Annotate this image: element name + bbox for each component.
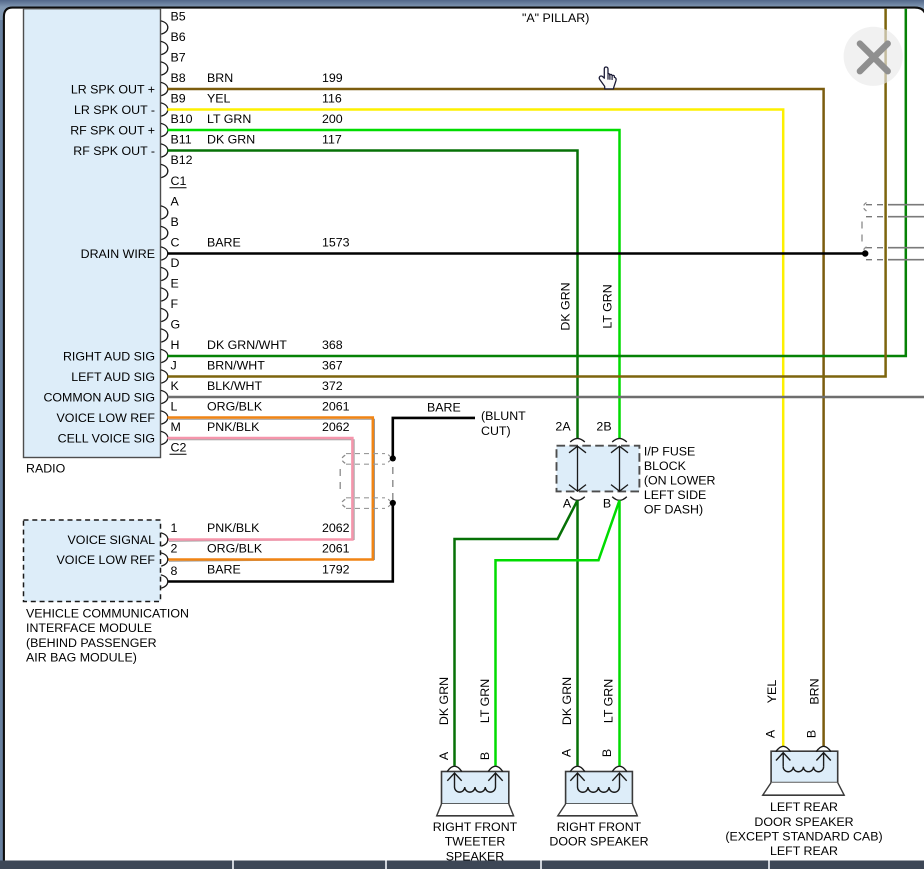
svg-text:B9: B9 [171,91,186,105]
radio pin B6 [161,30,186,55]
fuse block bottom cap pin B [612,497,627,501]
wire YEL 116 (radio B9 to left rear speaker A) [167,110,783,748]
wire DK GRN 117 (radio B11 to fuse block 2A) [167,151,577,439]
fuse block bottom cap pin A [570,497,585,501]
svg-text:DRAIN WIRE: DRAIN WIRE [81,247,155,261]
svg-text:BARE: BARE [207,235,241,249]
svg-text:116: 116 [322,91,342,105]
fuse element arrow 2B-B [611,446,628,491]
radio connector box [24,9,161,458]
svg-text:DK GRN: DK GRN [207,132,255,146]
radio pin C1 [170,174,187,188]
left rear door speaker [763,746,845,795]
svg-text:B: B [804,730,818,738]
svg-text:B: B [478,752,492,760]
svg-text:RF SPK OUT -: RF SPK OUT - [73,144,155,158]
svg-text:A: A [560,748,574,757]
svg-text:(BEHIND PASSENGER: (BEHIND PASSENGER [26,636,157,650]
svg-text:368: 368 [322,338,343,352]
mouse hand cursor [599,67,616,89]
svg-text:B: B [603,496,611,510]
wire ORG/BLK 2061 (radio L to VCIM pin 2) black stripe [169,419,375,561]
fuse block description text [644,445,716,517]
svg-text:DOOR SPEAKER: DOOR SPEAKER [754,815,853,829]
splice node on bare wire (top) [390,455,396,461]
bottom bar [0,861,924,869]
svg-text:2: 2 [171,541,178,555]
svg-text:A: A [763,729,777,738]
VCIM pin 2 [161,541,178,566]
svg-text:117: 117 [322,132,342,146]
wire label BRN/WHT 367 [207,358,343,372]
wire LT GRN 200 (radio B10 to fuse block 2B) [167,130,619,439]
svg-text:PNK/BLK: PNK/BLK [207,420,260,434]
svg-text:VOICE LOW REF: VOICE LOW REF [57,411,156,425]
svg-text:D: D [171,256,180,270]
svg-text:2061: 2061 [322,541,350,555]
svg-text:I/P FUSE: I/P FUSE [644,445,695,459]
wire label BARE 1573 [207,235,350,249]
svg-text:B10: B10 [171,112,193,126]
svg-text:A: A [171,194,180,208]
svg-text:CUT): CUT) [481,424,511,438]
radio pin B12 [161,153,193,178]
VCIM wire label BARE 1792 [207,562,350,576]
radio pin C [161,235,180,260]
radio pin B10 [161,112,193,137]
wire label BLK/WHT 372 [207,379,343,393]
svg-text:B: B [171,215,179,229]
fuse element arrow 2A-A [569,446,586,491]
A-pillar connector dashed terminal bottom [863,247,866,256]
radio pin B9 [161,91,186,116]
svg-text:372: 372 [322,379,343,393]
svg-text:ORG/BLK: ORG/BLK [207,399,263,413]
svg-text:B6: B6 [171,30,186,44]
VCIM wire label PNK/BLK 2062 [207,521,350,535]
svg-text:LEFT SIDE: LEFT SIDE [644,488,706,502]
A-pillar connector gray wire 2a [866,247,888,249]
svg-text:1792: 1792 [322,562,350,576]
svg-text:BARE: BARE [427,400,461,414]
VCIM pin 8 [161,564,178,588]
svg-text:BRN: BRN [207,71,233,85]
svg-text:BRN/WHT: BRN/WHT [207,358,265,372]
wire PNK/BLK 2062 (radio M to VCIM pin 1) black stripe [169,440,354,542]
radio pin B5 [161,9,186,34]
svg-text:199: 199 [322,71,343,85]
right front door speaker [558,766,638,816]
svg-text:DK GRN: DK GRN [437,677,451,725]
svg-text:RADIO: RADIO [26,461,66,475]
splice node drain wire to A-pillar [862,250,868,256]
radio pin H [161,338,180,363]
svg-text:A: A [437,751,451,760]
radio pin L [161,399,178,424]
wire label DK GRN/WHT 368 [207,338,343,352]
VCIM wire label ORG/BLK 2061 [207,541,350,555]
label (BLUNT CUT) [481,409,526,438]
wire BRN/WHT 367 (radio J, exits top right) [167,9,885,377]
svg-text:INTERFACE MODULE: INTERFACE MODULE [26,621,152,635]
radio pin C2 [170,440,187,454]
VCIM caption [26,606,189,664]
wire label DK GRN 117 [207,132,342,146]
radio pin B8 [161,71,186,96]
svg-text:L: L [171,399,178,413]
wire ORG/BLK 2061 (radio L to VCIM pin 2) [167,418,372,560]
svg-text:TWEETER: TWEETER [445,835,506,849]
svg-text:RIGHT AUD SIG: RIGHT AUD SIG [63,349,155,363]
svg-text:2062: 2062 [322,521,350,535]
svg-text:(EXCEPT STANDARD CAB): (EXCEPT STANDARD CAB) [725,829,882,843]
svg-text:LT GRN: LT GRN [207,112,251,126]
svg-text:COMMON AUD SIG: COMMON AUD SIG [43,390,155,404]
svg-text:B7: B7 [171,50,186,64]
svg-text:A: A [563,496,572,510]
svg-text:2B: 2B [596,419,611,433]
svg-text:(BLUNT: (BLUNT [481,409,526,423]
radio pin D [161,256,180,281]
VCIM pin 1 [161,521,178,546]
svg-text:LEFT AUD SIG: LEFT AUD SIG [71,370,155,384]
wire label ORG/BLK 2061 [207,399,350,413]
svg-text:2A: 2A [555,419,571,433]
wire BARE 1573 drain wire (radio C to A-pillar splice) [167,252,863,255]
svg-text:"A" PILLAR): "A" PILLAR) [522,11,589,25]
svg-text:B: B [600,749,614,757]
fuse block top cap pin 2A [570,438,585,442]
radio pin K [161,379,180,404]
wire label LT GRN 200 [207,112,343,126]
svg-text:BRN: BRN [807,678,821,704]
splice node on bare wire (bottom) [390,500,396,506]
svg-text:8: 8 [171,564,178,578]
I/P fuse block box (dashed) [557,446,640,492]
wire DK GRN/WHT 368 (radio H, exits top right) [167,9,906,356]
svg-text:(ON LOWER: (ON LOWER [644,474,716,488]
wire LT GRN branch fuse B to RF tweeter B [496,500,620,766]
svg-text:K: K [171,379,180,393]
radio pin B7 [161,50,186,75]
svg-text:YEL: YEL [765,680,779,704]
svg-text:BLK/WHT: BLK/WHT [207,379,263,393]
wire BRN 199 (radio B8 to left rear speaker B) [167,89,823,747]
svg-text:DK GRN: DK GRN [560,677,574,725]
svg-text:C2: C2 [171,440,187,454]
svg-text:B12: B12 [171,153,193,167]
radio pin J [161,358,177,383]
A-pillar connector gray wire 1a [866,204,888,206]
svg-text:2062: 2062 [322,420,350,434]
wire DK GRN fuse A to RF door speaker A [576,500,579,766]
svg-text:H: H [171,338,180,352]
svg-text:RF SPK OUT +: RF SPK OUT + [70,123,155,137]
radio pin B11 [161,132,192,157]
wire BLK/WHT 372 (radio K, exits right) [167,396,924,399]
svg-text:367: 367 [322,358,343,372]
svg-text:B11: B11 [171,132,192,146]
wire label BRN 199 [207,71,343,85]
radio pin E [161,276,179,301]
svg-text:LT GRN: LT GRN [478,679,492,723]
wire BARE 1792 dashed section through inline connector [392,461,394,500]
svg-text:1: 1 [171,521,178,535]
radio pin M [161,420,181,445]
wire DK GRN branch fuse A to RF tweeter A [455,500,578,766]
radio pin F [161,297,179,322]
A-pillar connector dashed terminal top [863,203,866,212]
svg-text:CELL VOICE SIG: CELL VOICE SIG [58,431,155,445]
svg-text:VEHICLE COMMUNICATION: VEHICLE COMMUNICATION [26,606,189,620]
close button [844,27,903,86]
svg-text:VOICE LOW REF: VOICE LOW REF [57,553,156,567]
svg-text:PNK/BLK: PNK/BLK [207,521,260,535]
vehicle communication interface module box (dashed) [24,520,161,602]
svg-text:LT GRN: LT GRN [600,284,614,328]
wire LT GRN fuse B to RF door speaker B [618,500,621,766]
radio pin G [161,317,180,342]
wire PNK/BLK 2062 (radio M to VCIM pin 1) [167,438,352,540]
svg-text:LT GRN: LT GRN [601,679,615,723]
svg-text:VOICE SIGNAL: VOICE SIGNAL [68,533,156,547]
inline connector (dashed) on bare wire [340,454,391,509]
svg-text:B5: B5 [171,9,186,23]
svg-text:G: G [171,317,181,331]
right front tweeter speaker [437,766,514,816]
svg-text:2061: 2061 [322,399,350,413]
A-pillar connector dashed body [861,222,863,244]
svg-text:BARE: BARE [207,562,241,576]
wire label YEL 116 [207,91,342,105]
svg-text:ORG/BLK: ORG/BLK [207,541,263,555]
svg-text:B8: B8 [171,71,186,85]
svg-text:C1: C1 [171,174,187,188]
svg-text:RIGHT FRONT: RIGHT FRONT [433,820,518,834]
svg-text:DOOR SPEAKER: DOOR SPEAKER [549,835,648,849]
svg-text:AIR BAG MODULE): AIR BAG MODULE) [26,651,137,665]
radio pin A [161,194,180,219]
svg-text:LR SPK OUT +: LR SPK OUT + [71,82,155,96]
svg-text:1573: 1573 [322,235,350,249]
svg-text:DK GRN: DK GRN [558,282,572,330]
svg-text:F: F [171,297,179,311]
wire BARE 1792 upper solid part to blunt cut end [393,418,475,456]
fuse block top cap pin 2B [612,438,627,442]
A-pillar connector gray wire 2b [866,259,888,261]
svg-text:200: 200 [322,112,343,126]
svg-text:M: M [171,420,181,434]
svg-text:J: J [171,358,177,372]
svg-text:BLOCK: BLOCK [644,459,687,473]
svg-text:OF DASH): OF DASH) [644,503,703,517]
wire BARE 1792 (VCIM pin 8 up to blunt cut) lower solid part [167,506,392,582]
svg-text:YEL: YEL [207,91,231,105]
svg-text:LEFT REAR: LEFT REAR [770,844,838,858]
svg-text:LEFT REAR: LEFT REAR [770,800,838,814]
wire label PNK/BLK 2062 [207,420,350,434]
svg-text:RIGHT FRONT: RIGHT FRONT [557,820,642,834]
svg-text:C: C [171,235,180,249]
svg-text:E: E [171,276,179,290]
svg-text:LR SPK OUT -: LR SPK OUT - [74,103,155,117]
svg-text:DK GRN/WHT: DK GRN/WHT [207,338,287,352]
radio pin B [161,215,179,240]
A-pillar connector gray wire 1b [866,216,888,218]
